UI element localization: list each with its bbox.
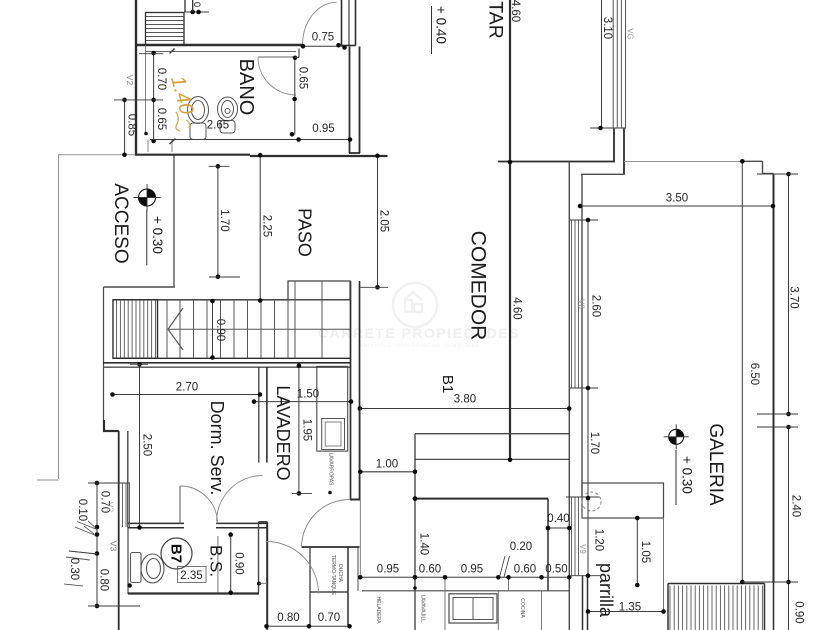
dim 0.80/0.70 bottom line y626.3 [267,625,350,627]
stair landing verticals [294,281,296,358]
svg-text:0.20: 0.20 [510,541,532,553]
window V3 angled sill lines [77,522,97,530]
wall ACCESO/stair y287 [104,286,176,288]
svg-text:LAVADERO: LAVADERO [273,385,293,480]
wall nub top x185-192.7 [184,0,186,12]
svg-text:1.05: 1.05 [639,541,651,563]
svg-text:2.05: 2.05 [377,210,389,232]
wall kitchen left x415 [414,434,416,630]
aux line x145.5 in BANO [145,45,147,134]
dim 1.95 line x298.9 [298,366,300,494]
dim 0.75 line y46.5 [303,45,346,47]
svg-text:ACCESO: ACCESO [110,183,131,263]
label box 2.35 [178,567,207,583]
dim tick slash [170,139,176,145]
wall x118.7 (431-630) [118,431,120,630]
wall LAVADERO left x258.8-267 (367-462) [258,367,260,463]
wall galeria top y161.5 [498,161,615,163]
svg-text:1.95: 1.95 [300,419,312,441]
wall B.S. bottom y593.5 [128,592,259,594]
svg-text:0.95: 0.95 [312,123,334,135]
stair direction chevron [168,308,183,329]
svg-text:1.20: 1.20 [592,529,604,551]
wall comedor/galeria x569.3 [568,162,570,630]
svg-text:+ 0.30: + 0.30 [679,456,694,494]
svg-text:V8: V8 [577,299,586,309]
window V2 left wall of Dorm.Serv (x122-130,y483-527) [122,483,124,527]
svg-text:6.50: 6.50 [748,363,760,385]
svg-text:4.60: 4.60 [509,0,521,22]
svg-text:Dorm. Serv.: Dorm. Serv. [207,401,227,496]
svg-text:HELADERA: HELADERA [375,597,381,625]
bidet in BANO [218,97,238,133]
svg-text:0.80: 0.80 [277,612,299,624]
thin ext x663.5 down [663,518,665,612]
thin line x217.9 B.S. [217,536,219,593]
door kitchen/hall arc [267,542,319,594]
svg-text:2.50: 2.50 [140,434,152,456]
dim 1.00 line y471.8 [360,471,415,473]
svg-text:1.70: 1.70 [588,432,600,454]
window V8 (x571-579,y220-388) [571,220,573,388]
shower hatch box top-left [146,13,185,46]
svg-text:parrilla: parrilla [596,563,616,618]
svg-text:2.40: 2.40 [789,495,801,517]
svg-text:TERMO-TANQUE: TERMO-TANQUE [330,555,336,596]
svg-text:0.85: 0.85 [125,114,137,136]
dim 0.40 line y528 [548,527,569,529]
stair hatch box [113,300,158,359]
svg-text:0.10: 0.10 [76,499,88,521]
tick slash 0.70 top [170,49,175,54]
dim 6.50 line x742.3 [741,161,743,582]
wall parrilla left x582.5-587.5 [582,576,584,630]
svg-text:0.90: 0.90 [792,601,804,623]
svg-text:B.S.: B.S. [207,545,226,577]
dim 2.70 line y394.5 [113,394,261,396]
door B.S. leaf [179,486,181,523]
svg-text:TAR: TAR [485,1,507,39]
wall Dorm.Serv bottom right y523.4-527.8 [216,522,267,524]
wall x348/x358 below termo [347,547,349,625]
thin line y161.5 (624-742) [624,161,742,163]
svg-text:3.80: 3.80 [454,394,476,406]
dim 2.25 line x260.2 [259,155,261,300]
door BANO interior arc [258,57,296,95]
wall kitchen band y459.4 [415,458,569,460]
svg-text:1.40: 1.40 [417,533,429,555]
wall termo closet bottom y592 [310,591,348,593]
svg-text:0.70: 0.70 [318,612,340,624]
dim 4.60 dots on x510 [508,160,513,165]
dim 3.50 line y205.5 [580,205,773,207]
svg-text:GALERIA: GALERIA [705,423,726,506]
wall top-right x615-624 (128-174) [613,128,615,162]
svg-text:+ 0.30: + 0.30 [150,216,165,254]
wall kitchen band y433.7 [415,433,569,435]
door LAVADERO arc [302,500,350,548]
svg-text:V3: V3 [109,541,119,552]
svg-text:0.60: 0.60 [514,564,536,576]
wall Dorm.Serv top double y362.8/y367 [103,362,351,364]
dim 3.10 line x603 [601,0,603,128]
svg-text:1.70: 1.70 [218,209,230,231]
svg-text:VG: VG [626,28,635,40]
wall termo closet left x310 [309,547,311,625]
svg-text:0.65: 0.65 [296,67,308,89]
level symbol ACCESO +0.30 [139,189,156,206]
wall jog y431 [103,430,119,432]
svg-text:0.75: 0.75 [312,32,334,44]
door Dorm.Serv arc [217,476,263,522]
dim top small y12 [184,11,209,13]
parrilla hatch box bottom-right [668,583,765,585]
grill counter rect galeria [582,483,664,518]
kitchen appliance dividers [444,577,446,630]
wall BANO right x349.5-359.5 [349,47,351,154]
toilet in B.S. (B7) [131,553,165,584]
wall galeria top inner y174.3 [581,173,625,175]
svg-text:LAVAVAJILL.: LAVAVAJILL. [419,595,425,624]
svg-text:0.50: 0.50 [545,564,567,576]
ext line x360.3 [359,409,361,578]
dim 0.30 leader [69,551,97,554]
kitchen sink double rect [449,594,497,623]
svg-text:+ 0.40: + 0.40 [433,6,448,44]
handwritten 1.40 orange [166,74,197,117]
dim 0.65 right line x294.8 [294,58,296,135]
level underline GALERIA [675,450,677,505]
wall comedor/galeria x582 [581,175,583,498]
wall BANO top y45 [135,44,303,46]
stair upper landing box [288,281,350,300]
wall galeria right x773.5 [773,174,775,584]
vanity nib in BANO [147,140,149,152]
svg-text:V2: V2 [106,502,116,513]
wall B.S. right x258.5-267.2 [258,522,260,594]
svg-text:LAVARROPAS: LAVARROPAS [327,453,333,486]
wall galeria top right corner [742,160,763,162]
door BANO top (swing up into ESTAR) [303,2,337,45]
svg-text:2.35: 2.35 [180,570,202,582]
svg-text:0.40: 0.40 [547,513,569,525]
svg-text:3.50: 3.50 [666,193,688,205]
svg-text:0.90: 0.90 [214,319,226,341]
svg-text:0.80: 0.80 [97,569,109,591]
dim 1.40 dots x415 [413,496,418,501]
svg-text:1.50: 1.50 [297,389,319,401]
svg-text:0.95: 0.95 [461,564,483,576]
wall termo closet top y547 [302,546,360,548]
washing machine closet LAVADERO [317,366,348,451]
wall left x103.5 (287-431) [103,287,105,420]
svg-text:V2: V2 [125,75,135,86]
svg-text:COCINA: COCINA [519,598,525,618]
dim 0.90 stairs line x212.5 [212,301,214,358]
wall jog at BANO door right [298,48,300,57]
svg-text:V9: V9 [578,544,587,554]
svg-text:2.25: 2.25 [260,215,272,237]
svg-text:BANO: BANO [235,59,257,116]
svg-text:B1: B1 [439,375,456,393]
kitchen counter line y590.8 [362,590,569,592]
svg-text:1.00: 1.00 [376,459,398,471]
dim 1.05 line x637.3 [636,518,638,585]
svg-text:0.65: 0.65 [155,108,167,130]
svg-text:4.60: 4.60 [510,297,522,319]
wall BANO bottom y155 [135,154,250,156]
svg-text:0.60: 0.60 [419,564,441,576]
dim 0.20 leader slashes [500,556,506,577]
dim 0.85 line x124.6 [124,100,126,155]
dim 0.95 BANO line y139 [150,139,352,141]
level underline ESTAR +0.40 [431,6,433,54]
dim right column x788.5 [788,174,790,414]
window V9 (x571-579,y497-576) [571,498,573,577]
wall Dorm.Serv bottom left y523.4-527.8 [128,522,184,524]
wall kitchen top y498.6 [415,498,548,500]
svg-text:3.10: 3.10 [601,17,613,39]
wall piece right of parrilla [773,583,775,630]
dim 1.50 line y401.6 [254,401,351,403]
door B.S. arc [180,486,218,523]
wall B.S. left x128 (528-594) [127,528,129,595]
lot boundary vertical x58.5 [58,155,60,479]
wall PASO left x174 [173,156,175,287]
dim 2.05 line x377.5 [377,156,379,288]
B7 circle label [161,538,192,569]
level underline ACCESO [146,210,148,265]
dim 2.60/1.70/1.20 line x588 [587,220,589,576]
wall ESTAR/COMEDOR right x510 [509,0,511,460]
thin line y583.3 B.S. to wall [259,582,267,584]
grill sink dashed circle [582,492,601,511]
toilet (inodoro) in BANO [188,97,209,140]
wall x127.8 (431-528) [127,431,129,528]
door BANO interior leaf [258,56,296,58]
stair treads [113,299,350,301]
svg-text:0.95: 0.95 [377,564,399,576]
svg-text:2.65: 2.65 [207,120,229,132]
svg-text:2.60: 2.60 [589,295,601,317]
svg-text:2.70: 2.70 [176,382,198,394]
watermark logo circle [318,283,520,349]
svg-text:DUCHA: DUCHA [337,564,343,582]
svg-text:0: 0 [191,2,202,7]
dim 3.80 line y408.5 [358,408,569,410]
svg-text:3.70: 3.70 [787,286,799,308]
wall BANO top inner line y51.5 [145,51,296,53]
dim left column x97 [96,483,98,606]
dim ext line y99.9 [114,99,163,101]
wall kitchen right x548 [547,499,549,591]
svg-text:0.70: 0.70 [155,68,167,90]
wall door jamb column top (x339-360,y0-46) [341,0,343,46]
wall left vertical x136 (BANO left) [135,0,137,156]
dim 0.10 leader [88,521,97,529]
svg-text:0.30: 0.30 [68,558,80,580]
wall right of stairs x350.5-359.5 (281-500) [350,281,352,500]
dots on B.S./kitchen junctions [257,582,261,586]
svg-text:PASO: PASO [295,208,315,257]
dim 1.35 line y611.5 [588,611,664,613]
level symbol GALERIA +0.30 [669,429,684,444]
svg-text:1.35: 1.35 [619,602,641,614]
stair mid line [168,328,350,330]
lot boundary jog bottom [37,479,59,481]
lot boundary thin line y155 left [58,154,135,156]
svg-text:B7: B7 [167,544,184,563]
dim 0.70/0.65 BANO left line x153.6 [153,53,155,141]
window VG top right (x613-625,y0-128) [612,0,614,128]
dim 0.90 B.S. line x230.7 [230,535,232,593]
svg-text:COMEDOR: COMEDOR [467,231,490,341]
dim kitchen row y577.3 [360,576,569,578]
dim 1.70 PASO line x217.9 [217,166,219,276]
svg-text:0.90: 0.90 [232,552,244,574]
svg-text:Servicios Inmobiliarios Integr: Servicios Inmobiliarios Integrales [358,343,480,349]
dim 2.50 line x139.5 [139,364,141,527]
